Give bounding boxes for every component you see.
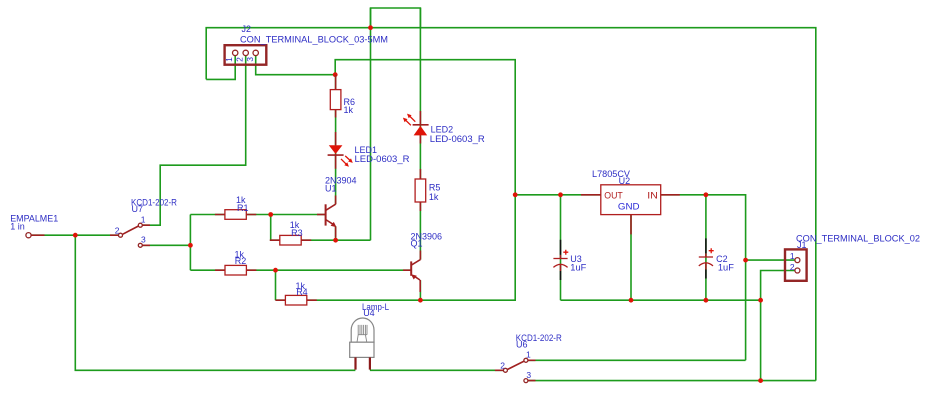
wire U6 pin1 row <box>528 359 746 361</box>
junction U6 pin3 row <box>758 378 763 383</box>
wire second rail y=59.7 from R6 node to x=515 column <box>335 60 515 195</box>
resistor R3 <box>270 235 311 245</box>
regulator U2 L7805CV <box>581 185 680 235</box>
junction top rail / LED2 branch <box>368 25 373 30</box>
svg-text:U7: U7 <box>132 204 144 214</box>
svg-text:LED2: LED2 <box>431 125 454 135</box>
svg-text:J2: J2 <box>242 24 252 34</box>
wire J2 pin1 loop <box>206 56 235 80</box>
svg-text:OUT: OUT <box>604 190 623 201</box>
junction R2-R4 node <box>273 268 278 273</box>
svg-text:3: 3 <box>245 57 255 62</box>
svg-text:1uF: 1uF <box>570 263 587 273</box>
svg-text:R4: R4 <box>296 287 308 297</box>
svg-text:1: 1 <box>790 251 795 261</box>
wire bus right <box>561 299 761 301</box>
wire column x=370.5 <box>370 8 372 240</box>
resistor R1 <box>215 210 256 220</box>
svg-text:U4: U4 <box>363 308 375 318</box>
switch U6 KCD1-202-R <box>495 358 536 382</box>
wire J2 pin3 to R6 node <box>256 56 336 75</box>
junction U1 emitter node <box>333 238 338 243</box>
svg-text:1: 1 <box>224 57 234 62</box>
wire GND column <box>630 215 632 301</box>
wire R4 row / bus left <box>276 195 516 300</box>
junction J1 pin2 node <box>758 298 763 303</box>
LED LED1 LED-0603_R <box>328 132 353 169</box>
connector J2 CON_TERMINAL_BLOCK_03-5MM <box>224 45 266 64</box>
junction J1 pin1 node <box>743 258 748 263</box>
wire LED2/R5/Q1 column <box>419 8 421 260</box>
junction U7 pin3 node <box>188 243 193 248</box>
connector EMPALME1 <box>26 233 45 238</box>
wire U3 column <box>560 195 562 300</box>
svg-text:CON_TERMINAL_BLOCK_02: CON_TERMINAL_BLOCK_02 <box>796 234 920 244</box>
svg-text:3: 3 <box>141 234 146 244</box>
wire top box over LED2 column <box>371 8 421 28</box>
junction EMPALME1 node <box>73 233 78 238</box>
wire U7 pin3 to node <box>143 244 191 246</box>
junction R6 top node <box>333 72 338 77</box>
wire EMPALME1 to U7 pin2 <box>31 234 118 236</box>
wire lamp to U6 pin2 <box>370 369 503 371</box>
svg-text:CON_TERMINAL_BLOCK_03-5MM: CON_TERMINAL_BLOCK_03-5MM <box>240 34 388 44</box>
junction U3 top <box>558 192 563 197</box>
svg-text:1: 1 <box>526 350 531 360</box>
svg-text:2: 2 <box>115 225 120 235</box>
junction GND bottom <box>629 298 634 303</box>
svg-text:1uF: 1uF <box>718 263 735 273</box>
svg-text:GND: GND <box>618 202 640 213</box>
resistor R6 <box>330 75 341 118</box>
svg-text:R3: R3 <box>291 228 303 238</box>
junction Q1 emitter node <box>418 298 423 303</box>
svg-text:1 in: 1 in <box>10 221 25 231</box>
svg-text:R1: R1 <box>237 203 249 213</box>
wire top rail y=27.7 from x=206 to x=816 <box>206 28 816 381</box>
svg-text:U6: U6 <box>516 340 528 350</box>
svg-text:R2: R2 <box>235 256 247 266</box>
wire OUT row <box>515 194 601 196</box>
junction R1-R3 node <box>268 212 273 217</box>
svg-text:U2: U2 <box>619 176 631 186</box>
svg-text:1k: 1k <box>344 105 354 115</box>
transistor Q1 2N3906 <box>403 251 420 293</box>
wire J1 pin1 row <box>746 259 795 261</box>
svg-text:IN: IN <box>647 190 658 201</box>
svg-text:3: 3 <box>526 370 531 380</box>
lamp U4 Lamp-L <box>350 318 374 370</box>
wire node column x=190 <box>189 215 191 271</box>
svg-text:U1: U1 <box>325 183 337 193</box>
wire J2 pin2 down to switch U7 pin1 <box>143 56 246 226</box>
LED LED2 LED-0603_R <box>403 111 429 144</box>
wire R2 row to Q1 base <box>190 269 411 271</box>
junction C2 top <box>704 192 709 197</box>
wire R6/LED1/U1 column <box>335 75 337 205</box>
svg-text:2: 2 <box>500 360 505 370</box>
junction C2 bottom <box>704 298 709 303</box>
connector J1 CON_TERMINAL_BLOCK_02 <box>785 249 807 280</box>
wire IN row <box>661 195 746 360</box>
capacitor C2 <box>699 238 714 278</box>
resistor R4 <box>275 295 316 305</box>
wire R3 / U1 emitter row <box>271 215 371 241</box>
svg-text:J1: J1 <box>797 240 807 250</box>
wire C2 column <box>705 195 707 300</box>
svg-text:1: 1 <box>141 214 146 224</box>
resistor R2 <box>215 265 256 275</box>
wire J1 pin2 row <box>761 271 795 381</box>
junction OUT row left <box>513 192 518 197</box>
wire R1 row to U1 base <box>190 214 325 216</box>
switch U7 KCD1-202-R <box>110 223 150 247</box>
wire R2 node down to R4 row <box>275 270 277 300</box>
svg-text:2: 2 <box>790 262 795 272</box>
capacitor U3 <box>553 240 568 280</box>
svg-text:1k: 1k <box>429 192 439 202</box>
resistor R5 <box>415 169 426 211</box>
wire U6 pin3 row <box>528 380 816 382</box>
svg-text:LED-0603_R: LED-0603_R <box>355 154 411 164</box>
wire left rail down to lamp row <box>75 235 355 370</box>
svg-text:2: 2 <box>235 57 245 62</box>
svg-text:LED-0603_R: LED-0603_R <box>430 134 486 144</box>
transistor U1 2N3904 <box>317 196 337 238</box>
svg-text:Q1: Q1 <box>411 238 423 248</box>
